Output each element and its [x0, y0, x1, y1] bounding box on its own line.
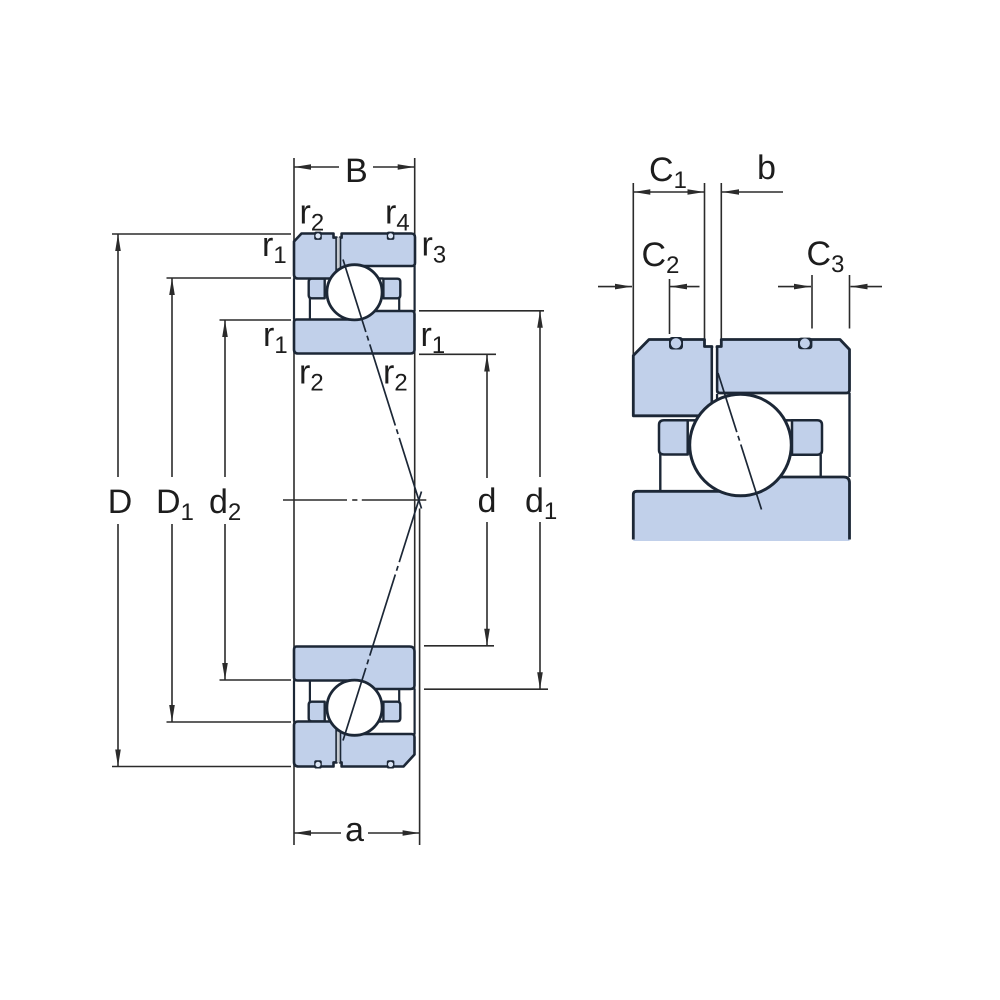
label r1UL	[264, 238, 285, 263]
cage left square bottom	[309, 702, 325, 722]
split slot fill	[337, 238, 340, 269]
label D	[111, 490, 131, 513]
b arrow line	[722, 191, 783, 193]
C1 dim line	[633, 191, 704, 193]
contact line top	[343, 260, 422, 509]
thin extension/leader lines	[112, 158, 548, 845]
label D1	[159, 490, 193, 520]
left face / B+a extension line	[293, 158, 295, 845]
label C2	[643, 242, 678, 273]
face pocket segments bottom	[293, 681, 295, 722]
label d1	[526, 487, 556, 519]
label r2TL	[302, 205, 323, 230]
label r3UR	[424, 237, 445, 263]
white split slot	[713, 348, 716, 402]
dimension lines verticals	[118, 167, 540, 833]
ball (top)	[327, 265, 382, 320]
right face / B extension line	[414, 158, 416, 754]
C2 dim lines	[598, 286, 632, 288]
label d2	[210, 488, 240, 520]
a dimension line	[294, 832, 341, 834]
cage left square	[309, 279, 325, 299]
cage right foot	[398, 297, 400, 312]
D leaders	[112, 233, 291, 235]
d leaders	[419, 353, 496, 355]
boss holes bottom	[314, 760, 322, 768]
contact line bottom	[343, 492, 422, 741]
cage right square	[792, 420, 822, 455]
label a	[346, 823, 363, 842]
block strokes	[633, 477, 849, 540]
ball (bottom)	[327, 680, 382, 735]
label r1MR	[423, 328, 444, 353]
d2 leaders	[220, 319, 292, 321]
outer ring right half (bottom)	[340, 729, 415, 767]
centerline (axis)	[283, 499, 426, 501]
label b	[759, 154, 774, 179]
label B	[348, 159, 366, 182]
face pocket segments	[293, 279, 295, 320]
contact line right fig	[718, 373, 762, 510]
label r2LR	[385, 365, 406, 390]
label C3	[808, 241, 843, 272]
boss holes top	[314, 232, 322, 240]
split slot fill (bottom)	[337, 732, 340, 763]
outer ring right half	[340, 234, 415, 272]
label r1ML	[265, 328, 286, 353]
arrowheads	[115, 164, 543, 836]
a right extension line	[419, 509, 421, 846]
D1 leaders	[167, 277, 292, 279]
outer ring left half (bottom)	[294, 722, 337, 767]
split lines below ring to ball	[711, 393, 714, 414]
outer ring left half (right fig)	[633, 340, 712, 416]
label r4TR	[387, 205, 409, 230]
outer ring left half	[294, 234, 337, 279]
outer ring right half (right fig)	[717, 340, 850, 394]
bosses right fig	[669, 337, 683, 350]
B dimension line	[294, 166, 339, 168]
inner ring block (bottom)	[294, 647, 415, 690]
cage right square bottom	[383, 702, 400, 722]
ball (right fig)	[690, 394, 792, 496]
inner ring block (right fig, fill only)	[633, 477, 849, 541]
label r2LL	[301, 365, 322, 390]
label d	[479, 487, 494, 512]
C3 dim lines	[778, 286, 811, 288]
thin extension lines	[598, 183, 882, 355]
cage left square	[659, 420, 688, 454]
d1 leaders	[419, 310, 544, 312]
cage left foot	[309, 297, 311, 320]
inner ring block (top)	[294, 311, 415, 354]
cage right square	[383, 279, 400, 299]
label C1	[651, 157, 686, 188]
right face pocket segment	[848, 393, 850, 477]
